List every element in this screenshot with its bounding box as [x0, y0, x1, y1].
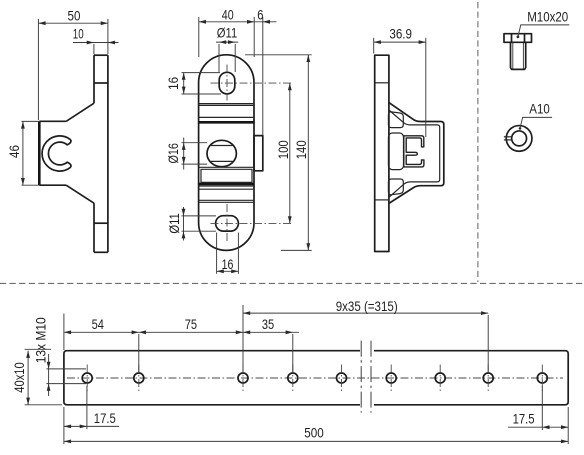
svg-text:Ø11: Ø11 — [217, 24, 238, 40]
dimension 9x35 (=315) — [243, 298, 488, 372]
hole 7 — [435, 365, 445, 392]
hole 2 — [134, 365, 144, 392]
side view plate outline — [39, 55, 108, 252]
clip web diagonals bottom — [389, 182, 421, 204]
hole 8 — [483, 365, 493, 392]
section view plate — [375, 55, 389, 251]
bottom slot hole 16x11 — [216, 216, 239, 231]
svg-text:140: 140 — [293, 140, 309, 159]
svg-text:17.5: 17.5 — [513, 410, 535, 426]
hole 9 — [537, 365, 547, 392]
clip box inner wall — [411, 125, 440, 182]
dimension 17.5 right — [508, 386, 568, 444]
svg-text:500: 500 — [304, 424, 324, 440]
dimension 10 — [73, 25, 119, 54]
dimension 500 — [64, 424, 568, 443]
svg-text:40: 40 — [222, 7, 234, 23]
svg-text:46: 46 — [6, 145, 22, 158]
dimension chain 54 75 35 — [64, 314, 299, 373]
hole 6 — [386, 365, 396, 392]
internal horizontal lines upper band — [199, 104, 254, 123]
leader A10 — [519, 100, 552, 129]
svg-text:54: 54 — [92, 316, 104, 332]
break lines — [361, 341, 371, 413]
svg-text:13x M10: 13x M10 — [32, 317, 48, 363]
front view stadium outline — [199, 55, 254, 251]
Ø16 hole with flats — [207, 140, 236, 166]
dimension 140 — [245, 55, 312, 251]
dimension Ø16 — [165, 138, 207, 170]
dimension 100 — [275, 83, 292, 223]
bolt shank with thread — [511, 42, 526, 69]
dimension 13x M10 — [32, 317, 86, 396]
clip pocket middle — [388, 133, 403, 170]
svg-text:9x35 (=315): 9x35 (=315) — [336, 298, 398, 314]
right side 6mm tab — [254, 136, 263, 171]
separator horizontal dash-dot divider above bottom strip — [0, 282, 584, 284]
svg-text:16: 16 — [222, 256, 234, 272]
svg-text:36.9: 36.9 — [389, 26, 412, 42]
strip horizontal centerline — [67, 377, 563, 379]
dimension 40 — [199, 7, 254, 57]
bolt head — [504, 34, 532, 43]
top slot hole Ø11x16 — [219, 72, 235, 94]
svg-text:M10x20: M10x20 — [527, 9, 568, 25]
svg-text:A10: A10 — [529, 100, 550, 116]
svg-text:10: 10 — [73, 25, 84, 41]
dimension Ø11 top — [216, 24, 238, 72]
dimension 50 — [38, 7, 108, 120]
dimension Ø11 bottom — [166, 207, 216, 241]
clip box outer wall — [421, 122, 444, 186]
svg-text:50: 50 — [68, 7, 81, 23]
washer ring — [504, 126, 532, 152]
dimension 17.5 left — [64, 386, 119, 444]
dimension 36.9 — [374, 26, 426, 138]
clip pocket bottom — [388, 179, 403, 195]
svg-text:35: 35 — [262, 316, 274, 332]
svg-text:16: 16 — [165, 77, 181, 90]
centerline top slot — [211, 65, 292, 101]
E-shaped clip profile (sheet metal section) — [404, 136, 424, 167]
hole 4 — [288, 365, 298, 392]
strip left section outline — [64, 351, 360, 405]
centerline bottom slot — [211, 204, 292, 243]
dimension 46 — [6, 121, 40, 185]
dimension 16 top slot — [165, 73, 221, 94]
recessed rectangle pocket — [199, 167, 254, 202]
clip pocket top — [388, 112, 403, 128]
svg-text:40x10: 40x10 — [11, 362, 27, 393]
leader M10x20 — [517, 9, 570, 39]
hole 1 — [82, 365, 92, 392]
svg-text:100: 100 — [275, 140, 291, 159]
svg-text:17.5: 17.5 — [94, 410, 116, 426]
dimension 40x10 — [11, 349, 62, 405]
dimension 16 bottom slot — [217, 233, 239, 274]
separator vertical dash-dot divider between views and parts column — [477, 2, 479, 282]
svg-text:6: 6 — [257, 7, 263, 23]
svg-text:Ø16: Ø16 — [165, 143, 181, 164]
strip right section outline — [374, 351, 568, 405]
C-clip profile in side view — [42, 136, 71, 171]
dimension 6 — [254, 7, 276, 135]
svg-text:Ø11: Ø11 — [166, 213, 182, 234]
clip web diagonals top — [389, 103, 421, 125]
hole 5 — [337, 365, 347, 392]
svg-text:75: 75 — [185, 316, 197, 332]
hole 3 — [238, 365, 248, 392]
